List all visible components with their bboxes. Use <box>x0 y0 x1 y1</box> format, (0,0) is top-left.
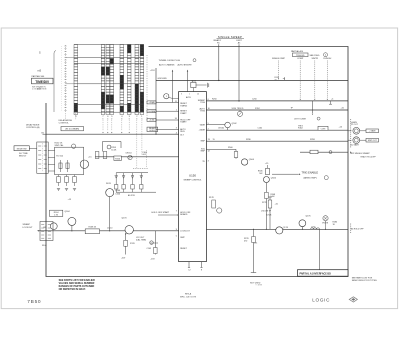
svg-text:READY HOLDOFF: READY HOLDOFF <box>361 155 377 158</box>
svg-text:GROUND: GROUND <box>158 78 168 80</box>
svg-text:mS: mS <box>38 70 42 73</box>
svg-text:TP OUT: TP OUT <box>351 124 359 126</box>
svg-text:TRIG BD: TRIG BD <box>296 55 305 57</box>
svg-text:OR DEPICTED IN GRAY.: OR DEPICTED IN GRAY. <box>59 288 86 291</box>
svg-text:RESET: RESET <box>180 248 187 250</box>
svg-text:-15V: -15V <box>121 258 126 260</box>
svg-text:U72B: U72B <box>267 215 273 217</box>
svg-text:TUNNEL DIODE PLUG: TUNNEL DIODE PLUG <box>159 60 181 62</box>
svg-text:GATE: GATE <box>200 123 206 126</box>
svg-text:(CAL TIME): (CAL TIME) <box>136 239 146 242</box>
svg-text:L276: L276 <box>311 226 315 228</box>
svg-text:TRIG: TRIG <box>200 111 205 113</box>
svg-text:C105: C105 <box>147 248 152 250</box>
svg-text:LOGIC: LOGIC <box>312 298 330 303</box>
svg-text:SWP CAL: SWP CAL <box>55 144 65 147</box>
svg-text:470: 470 <box>244 241 247 243</box>
svg-text:(ARM'D SWP): (ARM'D SWP) <box>304 177 318 180</box>
svg-text:B4 HOLD OFF: B4 HOLD OFF <box>351 228 365 230</box>
svg-text:U150: U150 <box>189 174 196 178</box>
svg-text:ALTB: ALTB <box>186 96 191 99</box>
svg-text:PARTIAL A1 INTERFACE BD: PARTIAL A1 INTERFACE BD <box>300 273 332 276</box>
svg-text:.001: .001 <box>142 154 146 156</box>
svg-text:L74/178 TP: L74/178 TP <box>261 210 272 212</box>
svg-text:C162: C162 <box>258 128 263 130</box>
svg-text:C154: C154 <box>192 80 196 82</box>
svg-text:SWP: SWP <box>200 140 205 142</box>
svg-text:SWP OUT: SWP OUT <box>368 140 378 142</box>
svg-text:562: 562 <box>259 173 262 175</box>
svg-text:(IN 10 LINEAR): (IN 10 LINEAR) <box>65 128 79 131</box>
svg-text:14: 14 <box>197 93 199 95</box>
svg-text:CH B(A): CH B(A) <box>148 110 156 113</box>
svg-text:© 1978: © 1978 <box>256 283 262 286</box>
svg-text:+GATE: +GATE <box>199 129 206 132</box>
svg-text:Q164: Q164 <box>65 211 71 213</box>
svg-text:+15(A): +15(A) <box>148 101 154 104</box>
svg-text:REV-A: REV-A <box>185 293 192 296</box>
svg-text:SEMICONDUCTOR TYPES.: SEMICONDUCTOR TYPES. <box>352 280 378 282</box>
svg-text:12: 12 <box>208 150 210 152</box>
svg-text:TIMING: TIMING <box>180 105 187 107</box>
svg-text:CONTROL (A): CONTROL (A) <box>26 126 40 129</box>
svg-text:CRT TO (SEE: CRT TO (SEE <box>294 119 307 121</box>
svg-text:7: 7 <box>176 210 177 212</box>
svg-text:R178: R178 <box>209 197 214 199</box>
svg-text:Q504: Q504 <box>249 159 255 161</box>
svg-text:AUTO BRIGHT: AUTO BRIGHT <box>178 63 193 66</box>
svg-text:TRIG: TRIG <box>298 126 303 128</box>
svg-text:1 mS POSITION: 1 mS POSITION <box>32 89 47 91</box>
svg-text:RUN: RUN <box>180 131 185 133</box>
svg-text:BOARD: BOARD <box>180 213 188 216</box>
svg-text:DS13: DS13 <box>106 183 111 185</box>
svg-text:Q174: Q174 <box>283 227 289 229</box>
svg-text:LOCKOUT: LOCKOUT <box>23 227 34 229</box>
svg-text:Q170: Q170 <box>122 218 128 220</box>
svg-text:S100: S100 <box>42 245 47 247</box>
svg-text:5: 5 <box>176 236 177 238</box>
svg-text:1: 1 <box>189 93 190 95</box>
svg-text:SINGLE SWEEP: SINGLE SWEEP <box>218 35 242 39</box>
svg-text:HOLD OFF START: HOLD OFF START <box>152 211 170 214</box>
svg-text:L1410: L1410 <box>107 228 112 230</box>
svg-text:SWEEP CONTROL: SWEEP CONTROL <box>184 179 203 181</box>
svg-text:-15V: -15V <box>151 259 156 261</box>
svg-text:DELAY MODE: DELAY MODE <box>26 124 40 127</box>
svg-text:HOLD: HOLD <box>150 130 156 132</box>
svg-text:A12 SINGLE SWEEP: A12 SINGLE SWEEP <box>351 152 371 155</box>
svg-text:TD 502: TD 502 <box>56 155 64 157</box>
svg-text:DELAY MODE: DELAY MODE <box>59 119 73 122</box>
svg-text:+5 (B): +5 (B) <box>149 120 155 122</box>
svg-text:3: 3 <box>181 93 182 95</box>
svg-text:LOCKOUT: LOCKOUT <box>180 230 190 232</box>
svg-text:MODE SW: MODE SW <box>17 148 27 150</box>
svg-text:Q502: Q502 <box>232 123 238 125</box>
svg-text:7B50: 7B50 <box>27 299 41 305</box>
svg-text:AUTO CHASSIS: AUTO CHASSIS <box>159 63 175 66</box>
svg-text:15: 15 <box>213 139 215 141</box>
svg-text:SWP: SWP <box>200 151 205 153</box>
svg-text:R250: R250 <box>212 99 217 101</box>
svg-text:S150 TRIG'D: S150 TRIG'D <box>232 108 244 110</box>
svg-text:PARTIAL S40: PARTIAL S40 <box>32 75 46 78</box>
svg-text:COMP: COMP <box>297 58 304 60</box>
svg-text:C296: C296 <box>321 128 326 130</box>
svg-text:RUN BU: RUN BU <box>323 58 331 60</box>
svg-text:Q176: Q176 <box>306 216 312 218</box>
svg-text:READY: READY <box>214 39 222 42</box>
svg-text:12: 12 <box>188 269 190 271</box>
svg-text:TRIG: TRIG <box>200 102 205 104</box>
svg-text:CR164: CR164 <box>125 152 132 154</box>
svg-text:C250: C250 <box>252 99 257 101</box>
svg-text:CONTROL: CONTROL <box>59 123 70 125</box>
svg-text:DLY: DLY <box>180 134 184 136</box>
svg-text:SEE DWG: SEE DWG <box>310 55 320 57</box>
svg-text:START: START <box>180 121 187 124</box>
svg-text:TRIG ENABLE: TRIG ENABLE <box>302 171 319 174</box>
svg-text:+ GATE: + GATE <box>369 130 377 133</box>
svg-text:R500: R500 <box>228 147 233 149</box>
svg-text:MFD. JULY 1978: MFD. JULY 1978 <box>180 296 197 298</box>
svg-text:SEE PARTS LIST FOR: SEE PARTS LIST FOR <box>352 276 373 279</box>
svg-text:8: 8 <box>201 269 202 271</box>
svg-text:Q506: Q506 <box>271 177 277 179</box>
svg-text:(1) GATE: (1) GATE <box>351 144 360 147</box>
svg-text:2.7K: 2.7K <box>54 214 59 216</box>
svg-text:VR278: VR278 <box>322 223 328 225</box>
svg-text:CR162: CR162 <box>218 128 224 130</box>
svg-text:A5 R13: A5 R13 <box>128 194 136 197</box>
svg-text:SELECT: SELECT <box>19 155 27 157</box>
svg-text:R296: R296 <box>246 139 251 141</box>
svg-text:+15V: +15V <box>150 70 156 72</box>
svg-text:SW/TR: SW/TR <box>311 58 318 60</box>
svg-text:SINGLE SWP: SINGLE SWP <box>272 58 286 60</box>
svg-text:START: START <box>180 112 187 115</box>
svg-text:14.0K: 14.0K <box>111 149 117 151</box>
svg-text:3: 3 <box>208 160 209 162</box>
svg-text:SWP: SWP <box>180 237 185 239</box>
svg-text:TIME/DIV: TIME/DIV <box>35 80 50 84</box>
svg-text:R168 1K: R168 1K <box>89 227 97 229</box>
